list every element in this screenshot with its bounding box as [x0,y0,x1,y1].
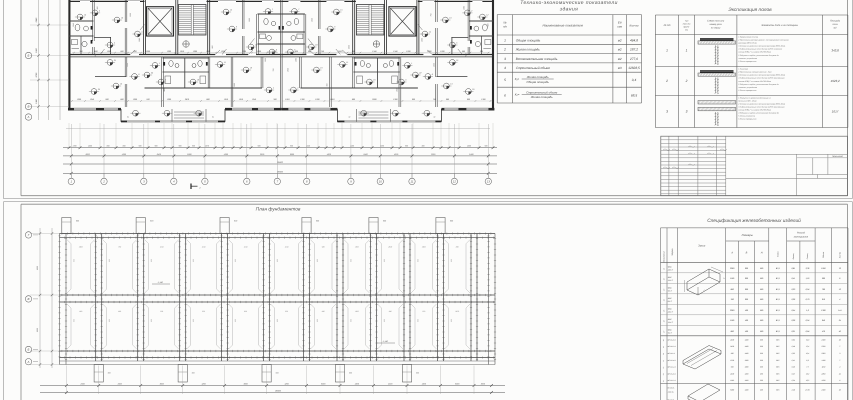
svg-text:8: 8 [306,180,308,184]
svg-text:250: 250 [759,379,763,382]
specification group2 sketch (slab) [683,349,721,369]
svg-text:2600: 2600 [387,246,392,249]
svg-text:300: 300 [273,98,277,101]
svg-text:520: 520 [422,310,425,313]
svg-text:h: h [723,277,725,280]
svg-text:860: 860 [107,145,110,148]
svg-text:76: 76 [839,267,842,270]
plan right half stair flight [356,5,384,36]
specification table outer verticals [660,228,662,400]
svg-text:1: 1 [411,62,412,65]
svg-text:600: 600 [412,98,416,101]
foundation left dims [39,228,41,368]
inner frame top sheet [20,0,22,196]
svg-text:В: В [746,252,748,255]
svg-text:24: 24 [838,319,841,322]
svg-text:39400: 39400 [277,170,284,173]
svg-text:10: 10 [379,180,383,184]
svg-text:580: 580 [760,330,764,333]
plan left half bath partitions [69,19,93,21]
svg-text:25: 25 [97,88,101,91]
plan left half corridor wall [69,54,281,56]
svg-text:13: 13 [450,82,453,85]
plan left half loggia fan markers [133,110,139,116]
svg-text:состав КПБ(-7 с в классе t05х: состав КПБ(-7 с в классе t05х785-85мм [738,109,771,112]
svg-text:2.Стяжка из цементно-песчаного: 2.Стяжка из цементно-песчаного раствора … [737,103,785,106]
foundation extension lines [65,366,67,395]
svg-text:8: 8 [432,73,434,76]
svg-text:12: 12 [839,288,842,291]
svg-text:1010: 1010 [285,98,290,101]
svg-text:900: 900 [211,46,214,49]
svg-text:14: 14 [141,30,143,33]
svg-text:1400: 1400 [745,345,749,348]
svg-text:5.Подушка из щебня, уплотненно: 5.Подушка из щебня, уплотненного битумом… [738,54,778,57]
svg-text:4: 4 [273,86,274,89]
svg-text:2400: 2400 [821,338,826,341]
svg-text:0,32: 0,32 [792,352,795,355]
svg-text:12: 12 [84,13,87,16]
title block cell scribbles [663,149,670,150]
svg-text:2400: 2400 [117,382,123,385]
svg-text:600: 600 [416,372,419,375]
svg-text:1200: 1200 [129,13,132,17]
svg-text:5: 5 [504,78,506,82]
svg-text:В15: В15 [776,372,779,375]
svg-text:проек-: проек- [683,26,690,29]
svg-text:600: 600 [316,220,320,223]
svg-text:26: 26 [838,389,841,392]
svg-text:6400: 6400 [157,153,162,156]
svg-text:ФБС: ФБС [668,318,673,321]
svg-text:600: 600 [108,372,111,375]
plan right half exterior left wall [492,0,494,110]
svg-text:600: 600 [349,319,352,322]
svg-text:м3: м3 [618,66,622,70]
svg-text:Жилая площадь: Жилая площадь [530,95,553,99]
svg-text:-1,140: -1,140 [382,340,389,343]
svg-text:2,48: 2,48 [791,389,795,392]
svg-text:300: 300 [760,338,763,341]
svg-text:600: 600 [416,319,419,322]
plan right half extra markers [443,17,449,23]
svg-text:Наименование показателя: Наименование показателя [542,24,583,28]
svg-text:600: 600 [276,259,279,262]
plan party wall center [279,0,281,109]
svg-text:300: 300 [94,54,97,57]
svg-text:План фундаментов: План фундаментов [256,207,301,213]
svg-text:1360: 1360 [167,98,172,101]
svg-text:2380: 2380 [729,309,735,312]
svg-text:900: 900 [105,98,109,101]
grid bubbles left (plan) [25,52,31,58]
svg-text:2600: 2600 [371,98,377,101]
svg-text:1400: 1400 [745,338,749,341]
svg-text:48: 48 [662,339,665,341]
svg-text:ФБС: ФБС [668,286,673,289]
svg-text:1400: 1400 [745,389,749,392]
svg-text:2600: 2600 [87,145,92,148]
svg-text:3: 3 [405,78,407,81]
svg-text:600: 600 [450,259,453,262]
svg-text:580: 580 [760,288,764,291]
svg-text:750: 750 [118,246,121,249]
svg-text:В15: В15 [776,359,779,362]
svg-text:7: 7 [298,8,300,11]
specification group3 rows [661,382,849,384]
plan right half interior dim texts row upper [284,52,490,54]
plan left half dark pier marks [91,26,93,30]
svg-text:2.Прослойка и раствор цемент.: 2.Прослойка и раствор цемент. состава це… [737,39,788,42]
svg-text:0,26: 0,26 [791,319,796,322]
svg-text:ФЛ 10.24-2: ФЛ 10.24-2 [668,372,676,375]
svg-text:54: 54 [662,380,665,382]
svg-text:1500: 1500 [355,310,359,313]
svg-text:7: 7 [276,180,278,184]
svg-text:ФБС: ФБС [668,265,673,268]
svg-text:Элементы пола и их толщины: Элементы пола и их толщины [761,24,798,27]
svg-text:7: 7 [839,359,840,362]
svg-text:Масштаб: Масштаб [832,155,843,158]
svg-text:38400: 38400 [275,389,282,392]
svg-text:6000: 6000 [321,382,326,385]
svg-text:Эскиз: Эскиз [698,245,706,248]
svg-text:2600: 2600 [347,45,350,50]
svg-text:25: 25 [471,88,475,91]
svg-text:2400: 2400 [729,372,734,375]
svg-text:74,3: 74,3 [806,338,809,341]
svg-text:600: 600 [416,259,419,262]
svg-text:1010: 1010 [202,246,206,249]
svg-text:2: 2 [665,79,668,83]
foundation mid strip [60,294,496,296]
svg-text:5.Ослои устройств: 5.Ослои устройств [738,115,755,118]
svg-text:6300: 6300 [36,265,39,270]
svg-text:пола по: пола по [683,23,691,26]
svg-text:520: 520 [202,310,205,313]
svg-text:2870: 2870 [184,98,190,101]
foundation top strip [60,233,496,235]
svg-text:12,4: 12,4 [806,352,809,355]
svg-text:12: 12 [486,13,489,16]
svg-text:46: 46 [662,320,665,322]
svg-text:состав КПБ(-7 с в классе t05х: состав КПБ(-7 с в классе t05х785-85мм [738,51,771,54]
svg-text:1,16: 1,16 [806,277,811,280]
svg-text:860: 860 [352,98,356,101]
section mark [190,184,192,190]
plan left half top cut walls [69,0,145,2]
svg-text:860: 860 [206,98,210,101]
svg-text:Зг: Зг [212,116,214,119]
svg-text:м2: м2 [834,27,838,30]
svg-text:26: 26 [838,338,841,341]
svg-text:900: 900 [405,145,408,148]
paper edge bottom sheet [4,201,853,203]
svg-text:21: 21 [455,59,458,62]
svg-text:600: 600 [72,259,75,262]
svg-text:10: 10 [121,16,124,19]
svg-text:580: 580 [760,267,764,270]
foundation cell step outlines [70,244,72,289]
svg-text:7: 7 [272,8,274,11]
svg-text:0,81: 0,81 [791,267,795,270]
svg-text:600: 600 [467,98,471,101]
svg-text:2870: 2870 [454,310,459,313]
svg-text:6.Плита перекрытия: 6.Плита перекрытия [738,118,756,121]
svg-text:1300: 1300 [432,63,435,67]
svg-text:4200: 4200 [394,153,399,156]
svg-text:1500: 1500 [355,246,359,249]
svg-text:6000: 6000 [187,153,192,156]
svg-text:1200: 1200 [406,50,411,53]
svg-text:пола: пола [833,23,839,26]
svg-text:1390: 1390 [393,98,398,101]
svg-text:300: 300 [760,352,763,355]
svg-text:760: 760 [822,288,826,291]
svg-text:980: 980 [192,145,195,148]
svg-text:880: 880 [731,288,735,291]
svg-text:Объем: Объем [822,251,825,258]
plan left half interior dim texts row upper [72,52,278,54]
svg-text:15,2: 15,2 [806,379,809,382]
svg-text:1: 1 [504,38,506,42]
svg-text:400: 400 [745,309,749,312]
svg-text:960: 960 [822,277,826,280]
plan right half fixtures center bath [294,18,298,24]
plan dimension row 1 [63,147,497,149]
svg-text:2400: 2400 [821,389,826,392]
svg-text:880: 880 [731,330,735,333]
svg-text:0,47: 0,47 [792,372,795,375]
svg-text:0,84: 0,84 [806,330,810,333]
svg-text:3: 3 [686,110,688,114]
svg-text:Жилая площадь: Жилая площадь [515,48,540,52]
svg-text:6.Плита перекрытия: 6.Плита перекрытия [738,89,756,92]
svg-text:Вспомогательная площадь: Вспомогательная площадь [516,57,558,61]
svg-text:2260: 2260 [821,372,826,375]
svg-text:22: 22 [418,71,422,74]
svg-text:п/п: п/п [503,25,507,29]
svg-text:1500: 1500 [286,68,289,72]
svg-text:300: 300 [760,345,763,348]
svg-text:1300: 1300 [264,58,267,62]
plan right half porch steps at core [389,109,391,122]
svg-text:1400: 1400 [745,352,749,355]
svg-text:1390: 1390 [138,38,141,42]
svg-text:2600: 2600 [421,246,426,249]
plan left half interior walls lower [124,57,126,77]
svg-text:2400: 2400 [729,345,734,348]
svg-text:-1,140: -1,140 [157,281,164,284]
svg-text:300: 300 [325,84,328,87]
plan right half door arcs [458,49,463,55]
plan right half facade recessed wall [441,108,494,111]
svg-text:580: 580 [760,319,764,322]
svg-text:0,26: 0,26 [791,298,796,301]
svg-text:49: 49 [662,346,665,348]
svg-text:0,70: 0,70 [806,298,811,301]
svg-text:3000: 3000 [481,382,486,385]
svg-text:277,6: 277,6 [629,57,638,61]
grid bubbles left (foundation) [33,234,38,236]
svg-text:0,54: 0,54 [791,309,795,312]
svg-text:6: 6 [504,93,506,97]
svg-text:6,3: 6,3 [806,359,808,362]
svg-text:600: 600 [234,220,238,223]
svg-text:1010: 1010 [180,50,185,53]
svg-text:0,24: 0,24 [792,379,795,382]
svg-text:980: 980 [486,24,489,27]
svg-text:1: 1 [70,180,72,184]
svg-text:1,6: 1,6 [806,309,810,312]
grid bubbles bottom [70,173,72,178]
svg-text:17,4: 17,4 [806,345,809,348]
svg-text:г: г [199,187,201,190]
svg-text:53: 53 [662,373,665,375]
svg-text:1300: 1300 [821,309,826,312]
svg-text:1300: 1300 [745,366,749,369]
svg-text:5: 5 [204,180,206,184]
foundation top stubs [62,218,71,234]
svg-text:1390: 1390 [380,145,384,148]
svg-text:0,94: 0,94 [806,288,810,291]
svg-text:300: 300 [79,50,83,53]
svg-text:18: 18 [315,43,318,46]
svg-text:номер узла: номер узла [710,23,723,26]
svg-text:640: 640 [822,319,826,322]
svg-text:3: 3 [504,57,506,61]
svg-text:Бетон,: Бетон, [792,252,795,259]
svg-text:2: 2 [503,48,506,52]
svg-text:520: 520 [146,98,150,101]
svg-text:5: 5 [114,41,116,44]
svg-text:41: 41 [662,268,665,270]
svg-text:Класс: Класс [777,250,780,257]
svg-text:4200: 4200 [284,382,289,385]
svg-text:1300: 1300 [257,50,262,53]
svg-text:1180: 1180 [730,379,734,382]
svg-text:5: 5 [456,41,458,44]
svg-text:В15: В15 [776,379,779,382]
svg-text:980: 980 [139,145,142,148]
svg-text:12: 12 [453,180,457,184]
svg-text:4: 4 [297,86,298,89]
svg-text:300: 300 [760,366,763,369]
svg-text:отметки устройства: отметки устройства [738,57,757,60]
foundation bottom dims [40,385,505,387]
svg-text:600: 600 [383,259,386,262]
svg-text:6000: 6000 [455,382,460,385]
svg-text:Схема пола или: Схема пола или [707,20,725,23]
svg-text:600: 600 [745,298,749,301]
svg-text:520: 520 [731,366,734,369]
svg-text:860: 860 [322,310,325,313]
svg-text:3.Стяжка из цементно-песчаного: 3.Стяжка из цементно-песчаного раствора … [738,45,786,48]
svg-text:750: 750 [272,69,275,72]
svg-text:2780: 2780 [821,345,826,348]
svg-text:бетона кл В25 - 25мм: бетона кл В25 - 25мм [738,100,757,103]
svg-text:600: 600 [383,319,386,322]
svg-text:600: 600 [349,372,352,375]
svg-text:1360: 1360 [233,83,236,87]
svg-text:580: 580 [760,277,764,280]
svg-text:В15: В15 [776,366,779,369]
svg-text:11: 11 [346,61,348,64]
svg-text:м2: м2 [618,48,622,52]
floor plan [68,0,494,122]
svg-text:В7,5: В7,5 [776,319,781,322]
title block right part [726,153,848,155]
svg-text:1340: 1340 [90,98,95,101]
svg-text:7: 7 [839,345,840,348]
svg-text:1160: 1160 [822,366,826,369]
title block frame [661,136,848,196]
foundation bottom edge [60,360,496,362]
plan left half porch steps at core [171,109,173,122]
svg-text:1390: 1390 [462,6,465,10]
svg-text:раствора М150-15 мм: раствора М150-15 мм [737,42,757,45]
svg-text:2600: 2600 [78,246,83,249]
svg-text:1.Керамическая плитка: 1.Керамическая плитка [738,36,758,39]
svg-text:47: 47 [662,331,665,333]
svg-text:15,2: 15,2 [806,372,809,375]
svg-text:600: 600 [316,259,319,262]
svg-text:580: 580 [760,298,764,301]
svg-text:860: 860 [456,246,459,249]
svg-text:1360: 1360 [420,38,423,42]
plan right half interior walls upper [469,0,471,41]
svg-text:3: 3 [839,352,840,355]
svg-text:м2: м2 [618,38,622,42]
svg-text:Г: Г [28,233,30,237]
svg-text:2380: 2380 [729,267,735,270]
svg-text:по серии: по серии [711,27,721,30]
svg-text:Строительный объем: Строительный объем [516,66,551,70]
svg-text:1017: 1017 [832,110,839,114]
svg-text:300: 300 [760,359,763,362]
svg-text:Б: Б [28,348,30,352]
plan right half fixtures lower core bath [389,61,393,67]
svg-text:5.Подушка из щебня, уплотненно: 5.Подушка из щебня, уплотненного битумом… [738,83,778,86]
svg-text:материалов: материалов [794,236,809,239]
svg-text:52: 52 [662,367,665,369]
svg-text:343,8: 343,8 [831,49,839,53]
svg-text:1360: 1360 [248,18,251,22]
svg-text:2400: 2400 [79,382,85,385]
svg-text:0,94: 0,94 [806,319,810,322]
svg-text:1390: 1390 [77,98,82,101]
svg-text:0,33: 0,33 [791,288,796,291]
floor schema sketch row 2 [700,70,734,73]
svg-text:860: 860 [352,50,356,53]
svg-text:980: 980 [258,145,261,148]
svg-text:Зг: Зг [433,116,435,119]
svg-text:2.Прослойка на клеящей мастике: 2.Прослойка на клеящей мастике - 5мм [737,71,772,74]
svg-text:900: 900 [179,145,182,148]
plan dimension row 3 [63,163,497,165]
svg-text:1360: 1360 [193,50,198,53]
svg-text:400: 400 [745,319,749,322]
svg-text:Кол-во: Кол-во [839,251,842,258]
floor schema sketch row 1 [700,38,734,41]
svg-text:520: 520 [295,50,299,53]
svg-text:19: 19 [250,66,253,69]
svg-text:Жилая площадь: Жилая площадь [526,75,549,79]
svg-text:980: 980 [389,310,392,313]
floor explication grid [655,14,848,16]
floor schema sketch row 3 [698,101,736,105]
svg-text:ФЛ 14.24-2: ФЛ 14.24-2 [668,338,676,341]
